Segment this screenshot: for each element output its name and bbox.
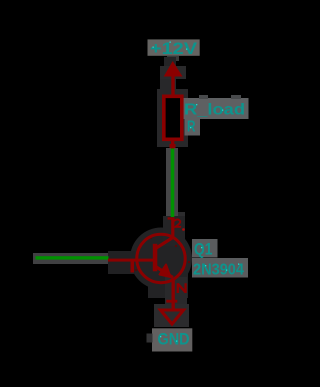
svg-text:2N3904: 2N3904	[193, 262, 244, 279]
wire base halo	[33, 253, 110, 264]
jpeg speckle highlights	[153, 42, 240, 342]
ground symbol triangle	[161, 310, 184, 324]
svg-text:+12V: +12V	[150, 40, 197, 58]
speckle noise	[188, 261, 190, 263]
transistor Q1 base bar	[153, 244, 158, 271]
power symbol +12V arrow	[164, 61, 183, 77]
transistor Q1 collector pin	[171, 218, 174, 239]
svg-text:R_load: R_load	[184, 102, 245, 119]
ground symbol halo	[165, 277, 187, 306]
transistor Q1 pin3 number	[174, 219, 181, 226]
label R_load halo	[182, 98, 249, 119]
resistor R_load bottom lead	[171, 141, 174, 149]
transistor Q1 emitter diagonal	[156, 267, 173, 278]
label Q1 halo	[192, 239, 218, 258]
transistor Q1 emitter pin	[172, 278, 175, 312]
transistor Q1 emitter tick	[166, 300, 177, 303]
power symbol halo	[164, 57, 176, 66]
transistor Q1 emitter arrow	[160, 265, 171, 278]
svg-text:Q1: Q1	[194, 241, 213, 259]
transistor Q1 circle	[137, 234, 185, 282]
label R halo	[185, 117, 201, 136]
svg-text:GND: GND	[158, 330, 190, 349]
transistor Q1 pin1 number	[178, 283, 186, 293]
label 2N3904 halo	[192, 258, 248, 278]
node +12V label halo	[148, 39, 200, 55]
transistor Q1 base lead	[108, 259, 153, 262]
resistor halo	[157, 89, 188, 147]
label GND halo	[152, 328, 192, 351]
transistor Q1 collector diagonal	[156, 238, 173, 249]
transistor Q1 pin2 number	[131, 259, 135, 273]
wire collector vertical	[171, 149, 175, 218]
wire base horizontal	[36, 256, 109, 259]
wire collector halo	[166, 148, 178, 218]
resistor R_load body	[164, 96, 182, 139]
transistor halo	[130, 228, 192, 290]
